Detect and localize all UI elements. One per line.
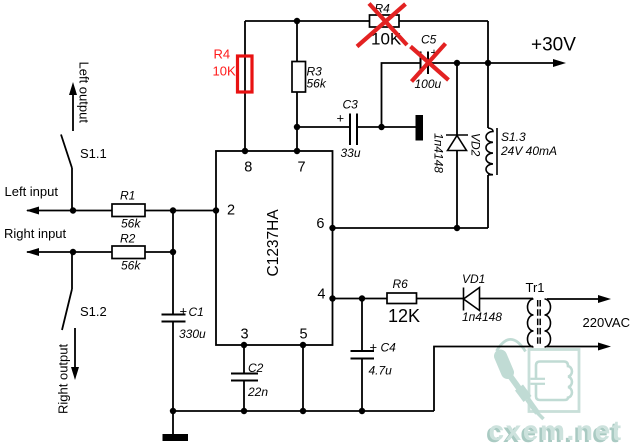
- svg-text:+: +: [337, 111, 345, 126]
- svg-text:S1.1: S1.1: [80, 146, 107, 161]
- svg-text:Right input: Right input: [4, 226, 67, 241]
- svg-text:C3: C3: [343, 98, 359, 112]
- svg-text:C2: C2: [248, 361, 264, 375]
- svg-text:2: 2: [227, 203, 235, 219]
- svg-text:+: +: [370, 340, 378, 355]
- svg-text:+30V: +30V: [531, 35, 576, 56]
- svg-text:cxem.net: cxem.net: [489, 415, 623, 446]
- svg-text:R6: R6: [393, 277, 409, 291]
- svg-text:C1237HA: C1237HA: [265, 209, 282, 277]
- svg-text:5: 5: [300, 327, 308, 343]
- svg-text:100u: 100u: [415, 77, 442, 91]
- svg-text:10K: 10K: [213, 64, 236, 79]
- svg-text:VD1: VD1: [462, 272, 485, 286]
- svg-text:C4: C4: [381, 341, 397, 355]
- svg-text:C1: C1: [189, 305, 204, 319]
- svg-text:S1.3: S1.3: [501, 130, 526, 144]
- svg-text:VD2: VD2: [469, 133, 483, 157]
- svg-text:1п4148: 1п4148: [432, 133, 446, 173]
- svg-text:Right output: Right output: [56, 344, 71, 414]
- svg-text:56k: 56k: [121, 217, 141, 231]
- svg-text:Left output: Left output: [77, 62, 92, 124]
- svg-text:24V 40mA: 24V 40mA: [500, 144, 557, 158]
- svg-text:Tr1: Tr1: [526, 280, 545, 295]
- svg-text:22n: 22n: [247, 385, 268, 399]
- svg-text:4.7u: 4.7u: [369, 364, 393, 378]
- svg-text:4: 4: [317, 287, 325, 303]
- svg-text:330u: 330u: [179, 327, 206, 341]
- svg-text:33u: 33u: [341, 146, 361, 160]
- svg-text:C5: C5: [421, 33, 437, 47]
- svg-text:7: 7: [298, 160, 306, 176]
- svg-text:12K: 12K: [388, 306, 420, 326]
- svg-text:3: 3: [241, 327, 249, 343]
- svg-text:1п4148: 1п4148: [462, 310, 502, 324]
- svg-text:56k: 56k: [121, 259, 141, 273]
- svg-text:220VAC: 220VAC: [583, 315, 630, 330]
- svg-text:R1: R1: [120, 189, 135, 203]
- svg-text:56k: 56k: [307, 77, 327, 91]
- svg-text:8: 8: [244, 160, 252, 176]
- svg-text:S1.2: S1.2: [80, 304, 107, 319]
- svg-text:Left input: Left input: [5, 184, 59, 199]
- svg-text:R2: R2: [120, 232, 136, 246]
- svg-text:+: +: [180, 304, 188, 319]
- svg-text:R4: R4: [214, 47, 231, 62]
- svg-text:6: 6: [316, 216, 324, 232]
